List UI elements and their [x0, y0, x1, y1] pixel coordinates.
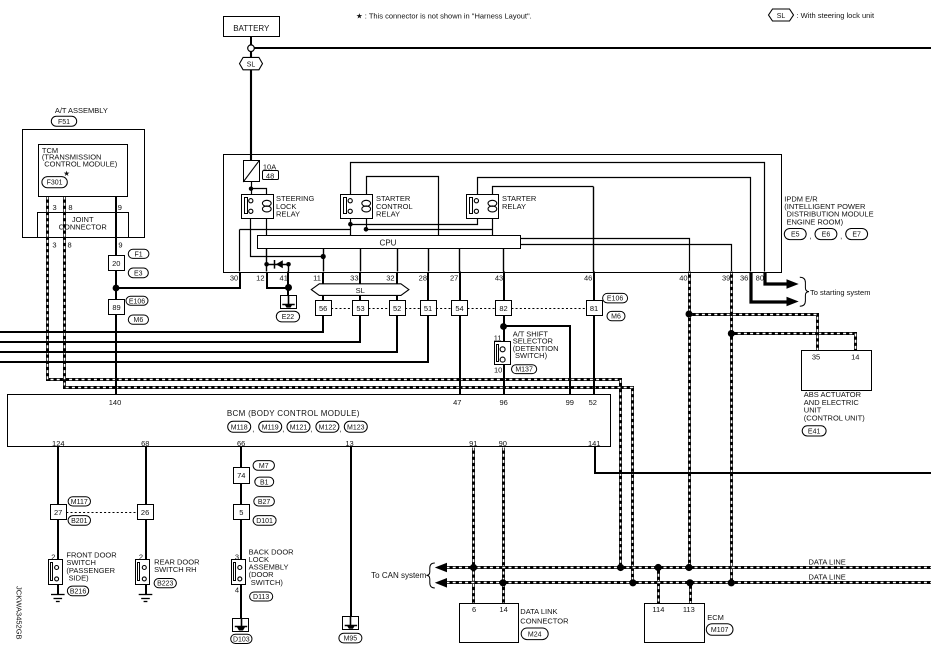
svg-text:DATA LINE: DATA LINE: [809, 573, 846, 582]
svg-text:M121: M121: [290, 424, 308, 431]
svg-text:JCKWA3452GB: JCKWA3452GB: [15, 586, 24, 640]
svg-text:9: 9: [118, 203, 122, 212]
svg-text:RELAY: RELAY: [276, 210, 300, 219]
svg-text:51: 51: [424, 304, 432, 313]
svg-text:33: 33: [350, 273, 358, 282]
svg-text:B27: B27: [258, 499, 271, 506]
svg-text:81: 81: [590, 304, 598, 313]
svg-text:36: 36: [740, 273, 748, 282]
svg-text:89: 89: [112, 303, 120, 312]
svg-text:,: ,: [809, 231, 811, 240]
svg-text:90: 90: [499, 439, 507, 448]
svg-text:M117: M117: [71, 499, 88, 506]
svg-text:35: 35: [812, 353, 820, 362]
svg-text:B201: B201: [71, 518, 87, 525]
svg-text:(CONTROL UNIT): (CONTROL UNIT): [804, 413, 865, 422]
svg-text:91: 91: [469, 439, 477, 448]
svg-text:14: 14: [499, 605, 507, 614]
svg-text:SWITCH): SWITCH): [251, 578, 284, 587]
svg-text:RELAY: RELAY: [376, 210, 400, 219]
svg-text:CONNECTOR: CONNECTOR: [520, 616, 569, 625]
svg-text:3: 3: [53, 203, 57, 212]
svg-text:9: 9: [118, 241, 122, 250]
svg-text:SL: SL: [356, 286, 365, 295]
svg-text:52: 52: [589, 398, 597, 407]
svg-text:M95: M95: [344, 636, 358, 643]
svg-text:M119: M119: [262, 424, 279, 431]
svg-text:B223: B223: [157, 581, 173, 588]
svg-text:140: 140: [109, 398, 122, 407]
svg-text:F1: F1: [135, 251, 143, 258]
svg-text:To CAN system: To CAN system: [371, 571, 426, 580]
svg-text:BATTERY: BATTERY: [233, 24, 270, 33]
svg-text:4: 4: [235, 585, 239, 594]
svg-text:26: 26: [141, 508, 149, 517]
svg-text:SIDE): SIDE): [69, 573, 90, 582]
svg-text:CONTROL MODULE): CONTROL MODULE): [44, 159, 118, 168]
svg-text:27: 27: [450, 273, 458, 282]
svg-text:27: 27: [54, 508, 62, 517]
svg-text:96: 96: [500, 398, 508, 407]
svg-text:32: 32: [386, 273, 394, 282]
svg-text:48: 48: [266, 171, 274, 180]
svg-text:M6: M6: [134, 317, 144, 324]
svg-text:B1: B1: [260, 479, 269, 486]
svg-text:46: 46: [584, 273, 592, 282]
svg-text:B216: B216: [70, 588, 86, 595]
svg-text:,: ,: [252, 425, 254, 434]
svg-text:E7: E7: [852, 232, 861, 239]
svg-text:M123: M123: [347, 424, 365, 431]
svg-text:39: 39: [722, 273, 730, 282]
svg-text:SL: SL: [777, 13, 786, 20]
svg-text:F301: F301: [47, 180, 63, 187]
svg-text:8: 8: [68, 203, 72, 212]
svg-text:D113: D113: [253, 594, 269, 601]
svg-text:8: 8: [68, 241, 72, 250]
svg-text:F51: F51: [58, 119, 70, 126]
svg-text:BCM (BODY CONTROL MODULE): BCM (BODY CONTROL MODULE): [227, 409, 360, 418]
svg-text:11: 11: [494, 333, 502, 342]
svg-text:114: 114: [652, 605, 664, 614]
svg-text:56: 56: [319, 304, 327, 313]
svg-text:E5: E5: [791, 232, 800, 239]
svg-text:E3: E3: [134, 270, 143, 277]
svg-text:DATA LINE: DATA LINE: [809, 557, 846, 566]
svg-text:113: 113: [683, 605, 695, 614]
svg-text:3: 3: [235, 552, 239, 561]
svg-text:3: 3: [52, 241, 56, 250]
svg-text:M6: M6: [611, 314, 621, 321]
svg-text:E41: E41: [808, 428, 821, 435]
svg-text:80: 80: [756, 273, 764, 282]
svg-text:6: 6: [472, 605, 476, 614]
svg-text:,: ,: [840, 231, 842, 240]
svg-text:47: 47: [453, 398, 461, 407]
svg-text:ECM: ECM: [707, 613, 724, 622]
svg-text:74: 74: [237, 471, 245, 480]
svg-text:20: 20: [112, 259, 120, 268]
svg-text:SL: SL: [247, 62, 256, 69]
svg-text:40: 40: [679, 273, 687, 282]
svg-text:30: 30: [230, 273, 238, 282]
svg-text:A/T ASSEMBLY: A/T ASSEMBLY: [55, 106, 108, 115]
svg-text:: With steering lock unit: : With steering lock unit: [797, 11, 875, 20]
svg-text:M107: M107: [711, 627, 729, 634]
svg-text:53: 53: [356, 304, 364, 313]
svg-text:82: 82: [499, 304, 507, 313]
svg-text:2: 2: [139, 552, 143, 561]
svg-text:CONNECTOR: CONNECTOR: [59, 222, 108, 231]
svg-text:14: 14: [851, 353, 859, 362]
svg-text:M122: M122: [319, 424, 337, 431]
svg-text:E6: E6: [822, 232, 831, 239]
svg-text:,: ,: [339, 425, 341, 434]
svg-text:SWITCH): SWITCH): [515, 351, 548, 360]
svg-text:43: 43: [495, 273, 503, 282]
svg-text:11: 11: [313, 273, 321, 282]
svg-text:M24: M24: [528, 631, 542, 638]
svg-text:,: ,: [311, 425, 313, 434]
svg-text:68: 68: [141, 439, 149, 448]
svg-text:10: 10: [494, 366, 502, 375]
svg-text:★ : This connector is not show: ★ : This connector is not shown in "Harn…: [356, 12, 532, 21]
svg-text:28: 28: [419, 273, 427, 282]
svg-text:To starting system: To starting system: [810, 288, 870, 297]
svg-text:CPU: CPU: [380, 238, 397, 247]
svg-text:2: 2: [51, 552, 55, 561]
svg-text:41: 41: [280, 273, 288, 282]
svg-text:★: ★: [63, 169, 70, 178]
svg-text:124: 124: [52, 439, 65, 448]
svg-text:D103: D103: [233, 636, 250, 643]
svg-text:E22: E22: [282, 314, 295, 321]
svg-text:13: 13: [345, 439, 353, 448]
svg-text:99: 99: [566, 398, 574, 407]
svg-text:5: 5: [239, 508, 243, 517]
svg-text:ENGINE ROOM): ENGINE ROOM): [787, 217, 844, 226]
svg-text:10A: 10A: [263, 163, 276, 172]
svg-text:54: 54: [455, 304, 463, 313]
svg-text:E106: E106: [129, 298, 145, 305]
svg-text:D101: D101: [256, 518, 273, 525]
svg-text:M137: M137: [515, 367, 533, 374]
svg-text:M118: M118: [231, 424, 248, 431]
svg-text:12: 12: [256, 273, 264, 282]
svg-text:SWITCH RH: SWITCH RH: [154, 565, 197, 574]
svg-text:RELAY: RELAY: [502, 202, 526, 211]
svg-text:DATA LINK: DATA LINK: [520, 607, 557, 616]
svg-text:E106: E106: [607, 296, 623, 303]
svg-text:52: 52: [393, 304, 401, 313]
svg-text:141: 141: [588, 439, 601, 448]
svg-text:,: ,: [282, 425, 284, 434]
svg-text:66: 66: [237, 439, 245, 448]
svg-text:M7: M7: [259, 463, 269, 470]
